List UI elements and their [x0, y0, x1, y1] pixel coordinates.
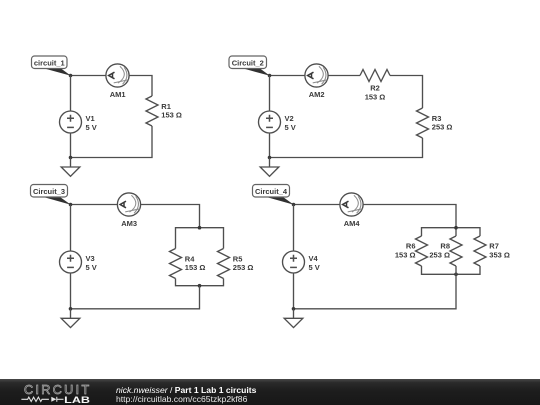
CircuitLab logo resistor-diode glyph: [21, 397, 63, 402]
svg-text:353 Ω: 353 Ω: [489, 251, 510, 260]
ammeter AM4: [340, 193, 363, 228]
node junction bottom circuit 2: [268, 156, 272, 160]
wire ammeter to R2: [328, 75, 360, 77]
node junction top circuit 2: [268, 74, 272, 78]
svg-text:R5: R5: [233, 254, 243, 263]
resistor R6: [395, 236, 428, 266]
wire junction to V2 top: [269, 76, 271, 112]
wire junction to V1 top: [70, 76, 72, 112]
node junction top circuit 3: [69, 203, 73, 207]
ground circuit 4: [284, 309, 303, 328]
svg-text:http://circuitlab.com/cc65tzkp: http://circuitlab.com/cc65tzkp2kf86: [116, 394, 248, 404]
svg-text:R4: R4: [185, 254, 195, 263]
svg-text:V3: V3: [86, 254, 95, 263]
svg-text:V4: V4: [309, 254, 319, 263]
svg-text:R8: R8: [440, 242, 450, 251]
footer bar background: [0, 379, 540, 405]
wire V3 bottom to ground node: [70, 273, 72, 309]
svg-text:R7: R7: [489, 242, 499, 251]
wire V4 bottom to ground node: [293, 273, 295, 309]
svg-text:Circuit_2: Circuit_2: [232, 59, 264, 68]
svg-text:153 Ω: 153 Ω: [161, 111, 182, 120]
node label Circuit_4: [253, 185, 294, 205]
wire top rail left c4: [294, 204, 340, 206]
node label Circuit_2: [229, 56, 270, 76]
node junction bottom bar c4: [454, 273, 458, 277]
ground circuit 3: [61, 309, 80, 328]
svg-text:5 V: 5 V: [309, 263, 320, 272]
node junction top bar c4: [454, 226, 458, 230]
wire junction to V4 top: [293, 205, 295, 252]
svg-text:153 Ω: 153 Ω: [185, 263, 206, 272]
wire parallel bottom bar c3: [176, 279, 224, 286]
wire top rail left c2: [270, 75, 305, 77]
wire ammeter to R1 top: [129, 76, 152, 97]
wire V1 bottom to ground node: [70, 133, 72, 158]
svg-text:Circuit_3: Circuit_3: [33, 187, 65, 196]
node junction top circuit 4: [292, 203, 296, 207]
resistor R5: [218, 249, 254, 279]
wire ammeter to parallel top bar: [141, 205, 200, 228]
svg-text:R2: R2: [370, 84, 380, 93]
node label Circuit_3: [31, 185, 71, 205]
ammeter AM2: [305, 64, 328, 99]
voltage source V2: [259, 111, 296, 133]
svg-text:253 Ω: 253 Ω: [432, 123, 453, 132]
resistor R8: [429, 236, 462, 266]
svg-text:5 V: 5 V: [86, 263, 97, 272]
resistor R4: [170, 249, 206, 279]
ammeter AM3: [117, 193, 140, 228]
resistor R1: [146, 96, 182, 126]
wire R3 bottom to bottom rail c2: [270, 138, 423, 158]
wire V2 bottom to ground node: [269, 133, 271, 158]
node junction bottom circuit 3: [69, 307, 73, 311]
wire R2 to R3 top: [390, 76, 423, 109]
resistor R7: [474, 236, 510, 266]
node junction top bar c3: [198, 226, 202, 230]
wire parallel top bar c3: [176, 228, 224, 249]
wire top rail left: [71, 75, 106, 77]
wire bottom bar to bottom rail c4: [294, 266, 457, 309]
svg-text:Circuit_4: Circuit_4: [255, 187, 288, 196]
svg-text:253 Ω: 253 Ω: [233, 263, 254, 272]
voltage source V3: [60, 251, 97, 273]
voltage source V4: [283, 251, 320, 273]
node junction bottom circuit 1: [69, 156, 73, 160]
wire R1 bottom to bottom rail: [71, 126, 153, 158]
ground circuit 2: [260, 158, 279, 177]
svg-text:153 Ω: 153 Ω: [395, 251, 416, 260]
node junction bottom circuit 4: [292, 307, 296, 311]
svg-text:circuit_1: circuit_1: [34, 59, 65, 68]
svg-text:153 Ω: 153 Ω: [365, 92, 386, 101]
ground circuit 1: [61, 158, 80, 177]
svg-text:LAB: LAB: [64, 395, 90, 405]
svg-text:AM1: AM1: [110, 90, 126, 99]
svg-text:5 V: 5 V: [86, 123, 97, 132]
svg-text:AM3: AM3: [121, 219, 137, 228]
wire bottom bar to bottom rail c3: [71, 286, 200, 309]
wire junction to V3 top: [70, 205, 72, 252]
ammeter AM1: [106, 64, 129, 99]
node junction top circuit 1: [69, 74, 73, 78]
svg-text:5 V: 5 V: [285, 123, 296, 132]
svg-text:AM2: AM2: [309, 90, 325, 99]
node label circuit_1: [32, 56, 71, 76]
resistor R2: [360, 70, 390, 102]
svg-text:R6: R6: [406, 242, 416, 251]
svg-text:R1: R1: [161, 102, 171, 111]
svg-text:V1: V1: [86, 114, 95, 123]
wire top rail left c3: [71, 204, 118, 206]
resistor R3: [417, 108, 453, 138]
wire parallel top bar c4: [422, 228, 481, 236]
svg-text:253 Ω: 253 Ω: [429, 251, 450, 260]
wire parallel bottom bar c4: [422, 266, 481, 274]
node junction bottom bar c3: [198, 284, 202, 288]
svg-text:R3: R3: [432, 114, 442, 123]
wire ammeter to parallel top bar c4: [363, 205, 456, 237]
svg-text:V2: V2: [285, 114, 294, 123]
svg-text:AM4: AM4: [344, 219, 361, 228]
voltage source V1: [60, 111, 97, 133]
